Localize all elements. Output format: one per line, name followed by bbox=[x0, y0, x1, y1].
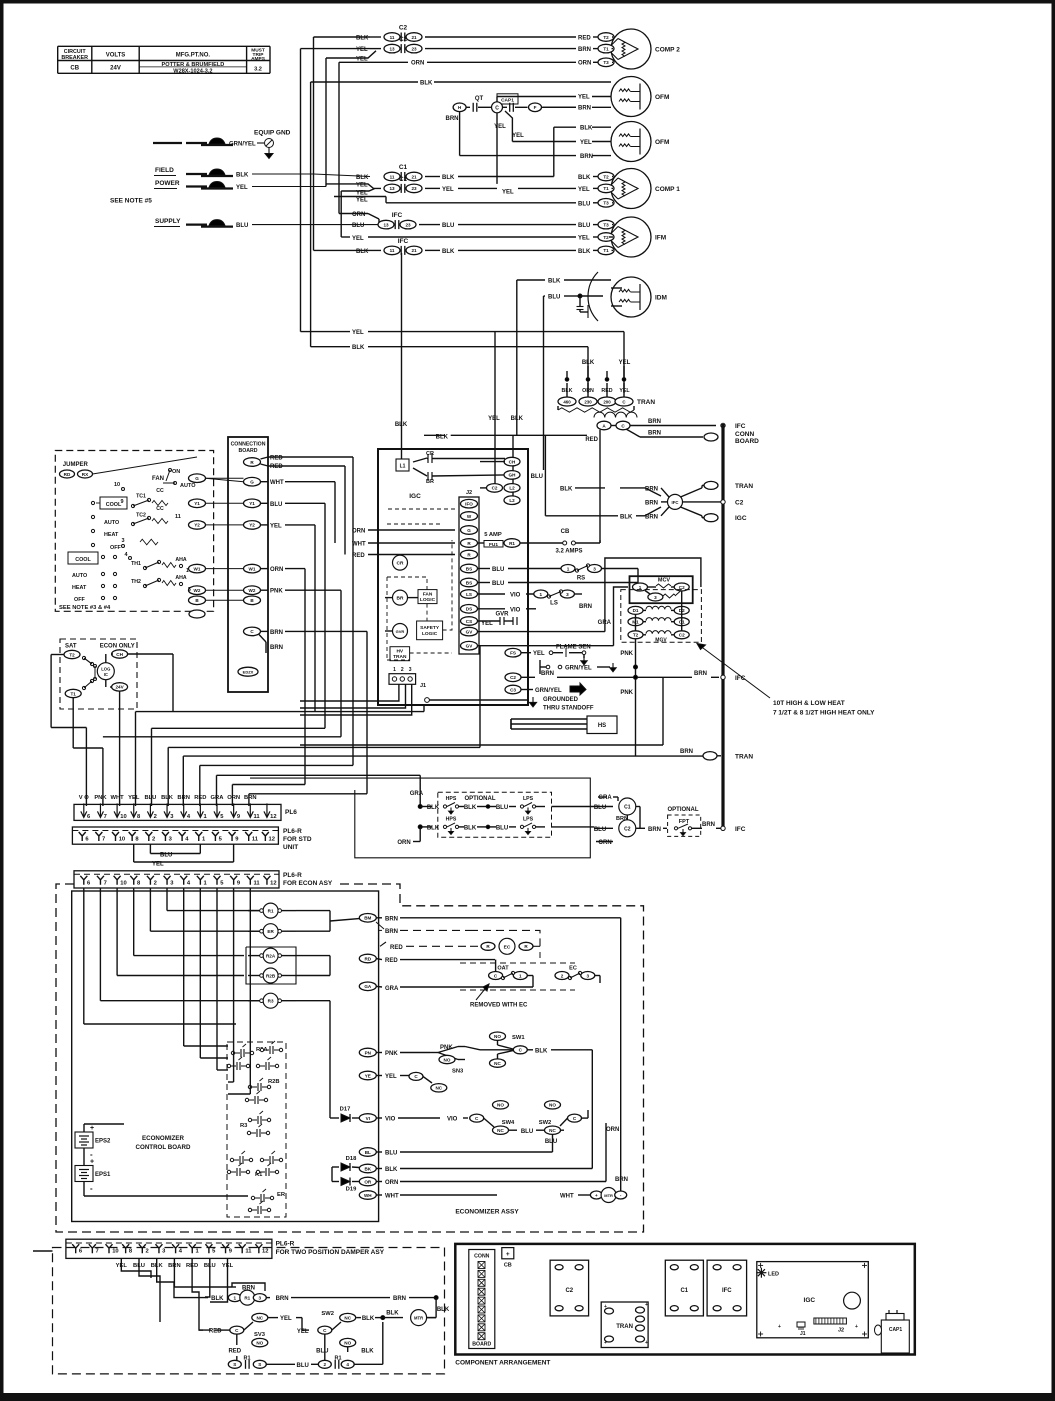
svg-text:2: 2 bbox=[324, 1362, 327, 1367]
svg-text:L1: L1 bbox=[400, 464, 406, 470]
svg-text:BR: BR bbox=[426, 479, 434, 485]
svg-text:CH: CH bbox=[509, 459, 516, 464]
svg-text:FIELD: FIELD bbox=[155, 167, 174, 174]
svg-text:BLK: BLK bbox=[236, 173, 249, 179]
svg-text:IFC: IFC bbox=[735, 826, 746, 833]
svg-text:RED: RED bbox=[578, 36, 591, 42]
svg-text:BRN: BRN bbox=[578, 47, 591, 53]
svg-text:BLK: BLK bbox=[437, 1307, 450, 1313]
svg-text:W1: W1 bbox=[249, 566, 256, 571]
svg-text:BLU: BLU bbox=[578, 201, 590, 207]
svg-text:LED: LED bbox=[768, 1272, 779, 1278]
svg-text:YEL: YEL bbox=[580, 140, 592, 146]
svg-text:J2: J2 bbox=[466, 490, 472, 496]
svg-text:BRN: BRN bbox=[244, 795, 257, 801]
svg-text:BLU: BLU bbox=[521, 1129, 533, 1135]
svg-text:T3: T3 bbox=[603, 201, 609, 206]
svg-text:RD: RD bbox=[364, 956, 371, 961]
svg-text:24V: 24V bbox=[110, 66, 121, 72]
svg-text:PNK: PNK bbox=[94, 795, 107, 801]
svg-text:BRN: BRN bbox=[276, 1296, 289, 1302]
svg-text:12: 12 bbox=[270, 814, 276, 820]
svg-text:COOL: COOL bbox=[106, 502, 122, 508]
svg-text:FPT: FPT bbox=[679, 819, 690, 825]
svg-text:HPS: HPS bbox=[446, 816, 457, 822]
svg-text:3: 3 bbox=[587, 973, 590, 978]
svg-text:IFC: IFC bbox=[735, 423, 746, 430]
svg-text:OPTIONAL: OPTIONAL bbox=[668, 807, 699, 813]
svg-text:HS: HS bbox=[598, 723, 606, 729]
svg-text:BR: BR bbox=[397, 596, 404, 602]
svg-text:GRA: GRA bbox=[598, 620, 612, 626]
svg-text:NC: NC bbox=[344, 1315, 351, 1320]
svg-text:ORN: ORN bbox=[270, 567, 283, 573]
svg-text:PL6-R: PL6-R bbox=[276, 1241, 295, 1248]
svg-text:W28X-1024-3.2: W28X-1024-3.2 bbox=[173, 68, 212, 74]
svg-text:GVR: GVR bbox=[396, 629, 405, 634]
svg-text:IGC: IGC bbox=[409, 493, 421, 500]
svg-text:EPS1: EPS1 bbox=[95, 1172, 111, 1178]
svg-text:GA: GA bbox=[364, 984, 372, 989]
svg-text:CB: CB bbox=[504, 1262, 512, 1268]
svg-text:VIO: VIO bbox=[510, 607, 521, 613]
svg-text:10: 10 bbox=[114, 482, 120, 488]
svg-text:COMPONENT ARRANGEMENT: COMPONENT ARRANGEMENT bbox=[455, 1360, 550, 1367]
svg-text:23: 23 bbox=[411, 46, 417, 51]
svg-text:BLU: BLU bbox=[352, 223, 364, 229]
svg-text:GRA: GRA bbox=[598, 795, 612, 801]
svg-text:ER: ER bbox=[267, 929, 274, 934]
svg-text:CB: CB bbox=[561, 529, 570, 535]
svg-text:CR: CR bbox=[426, 451, 434, 457]
svg-text:R2B: R2B bbox=[266, 974, 276, 979]
svg-text:1: 1 bbox=[186, 568, 189, 574]
svg-text:EC: EC bbox=[504, 944, 511, 950]
svg-text:IFC: IFC bbox=[672, 500, 679, 505]
svg-text:ORN: ORN bbox=[411, 61, 424, 67]
svg-text:CC: CC bbox=[156, 506, 164, 512]
svg-text:CAP1: CAP1 bbox=[501, 98, 514, 104]
svg-text:D19: D19 bbox=[346, 1187, 357, 1193]
svg-text:Y2: Y2 bbox=[249, 523, 255, 528]
svg-text:SW2: SW2 bbox=[539, 1120, 552, 1126]
svg-text:FAN: FAN bbox=[423, 592, 433, 598]
svg-text:JUMPER: JUMPER bbox=[63, 462, 89, 468]
svg-text:2: 2 bbox=[154, 880, 157, 886]
svg-text:S: S bbox=[258, 1362, 261, 1367]
svg-text:DS: DS bbox=[466, 607, 472, 612]
svg-text:1: 1 bbox=[519, 973, 522, 978]
svg-text:GRN/YEL: GRN/YEL bbox=[565, 666, 592, 672]
svg-text:IDM: IDM bbox=[655, 295, 667, 302]
svg-text:BLU: BLU bbox=[385, 1151, 397, 1157]
svg-text:FAN: FAN bbox=[152, 476, 164, 482]
svg-text:MGV: MGV bbox=[655, 638, 667, 644]
svg-text:BRN: BRN bbox=[541, 671, 554, 677]
svg-text:ON: ON bbox=[172, 469, 180, 475]
svg-text:BOARD: BOARD bbox=[472, 1342, 491, 1348]
svg-text:YEL: YEL bbox=[494, 124, 506, 130]
svg-text:11: 11 bbox=[245, 1249, 252, 1255]
svg-text:COMP 1: COMP 1 bbox=[655, 186, 680, 193]
svg-text:+: + bbox=[778, 1324, 781, 1330]
svg-text:C2: C2 bbox=[399, 25, 408, 32]
svg-text:TRAN: TRAN bbox=[616, 1324, 633, 1330]
svg-text:+: + bbox=[506, 1251, 510, 1258]
svg-text:YEL: YEL bbox=[236, 185, 248, 191]
svg-text:YEL: YEL bbox=[152, 862, 164, 868]
svg-text:L2: L2 bbox=[509, 498, 515, 503]
svg-text:BRN: BRN bbox=[648, 431, 661, 437]
svg-text:ORN: ORN bbox=[352, 528, 365, 534]
svg-text:AUTO: AUTO bbox=[180, 483, 196, 489]
svg-text:SAFETY: SAFETY bbox=[420, 625, 440, 631]
svg-text:EC: EC bbox=[569, 966, 577, 972]
svg-text:BRN: BRN bbox=[616, 816, 628, 822]
svg-text:BRN: BRN bbox=[578, 106, 591, 112]
svg-text:OR: OR bbox=[364, 1179, 372, 1184]
svg-text:J2: J2 bbox=[838, 1328, 844, 1334]
svg-text:11: 11 bbox=[252, 837, 259, 843]
svg-text:BM: BM bbox=[364, 916, 371, 921]
svg-text:7: 7 bbox=[102, 837, 105, 843]
svg-text:FU1: FU1 bbox=[489, 542, 498, 548]
svg-text:L2: L2 bbox=[509, 486, 515, 491]
svg-text:PNK: PNK bbox=[385, 1051, 398, 1057]
svg-text:GRA: GRA bbox=[410, 791, 424, 797]
svg-text:12: 12 bbox=[269, 837, 275, 843]
svg-text:BLU: BLU bbox=[545, 1139, 557, 1145]
svg-text:VI: VI bbox=[366, 1116, 370, 1121]
svg-text:MCV: MCV bbox=[658, 578, 671, 584]
svg-text:21: 21 bbox=[411, 174, 417, 179]
svg-text:WHT: WHT bbox=[385, 1194, 399, 1200]
svg-text:MTR: MTR bbox=[414, 1316, 423, 1321]
svg-text:3: 3 bbox=[654, 595, 657, 600]
svg-text:T3: T3 bbox=[603, 60, 609, 65]
svg-text:SUPPLY: SUPPLY bbox=[155, 218, 181, 225]
svg-text:460: 460 bbox=[563, 399, 571, 404]
svg-text:OFF: OFF bbox=[74, 597, 85, 603]
svg-text:VIO: VIO bbox=[510, 593, 521, 599]
svg-text:4: 4 bbox=[346, 1362, 349, 1367]
svg-text:T1: T1 bbox=[603, 46, 609, 51]
svg-text:21: 21 bbox=[411, 35, 417, 40]
svg-text:GROUNDED: GROUNDED bbox=[543, 697, 579, 703]
svg-text:ORN: ORN bbox=[606, 1127, 619, 1133]
svg-text:YEL: YEL bbox=[270, 523, 282, 529]
svg-text:D18: D18 bbox=[346, 1156, 357, 1162]
svg-text:T3: T3 bbox=[603, 222, 609, 227]
svg-text:BLK: BLK bbox=[385, 1167, 398, 1173]
svg-text:BLU: BLU bbox=[496, 825, 508, 831]
svg-text:RED: RED bbox=[270, 464, 283, 470]
svg-text:R1: R1 bbox=[334, 1356, 341, 1362]
svg-text:GV: GV bbox=[466, 644, 474, 649]
svg-text:BRN: BRN bbox=[446, 116, 459, 122]
svg-text:VIO: VIO bbox=[447, 1117, 458, 1123]
svg-text:BRN: BRN bbox=[580, 154, 593, 160]
svg-text:CS: CS bbox=[466, 619, 472, 624]
svg-text:IFC: IFC bbox=[398, 238, 409, 245]
svg-text:D17: D17 bbox=[340, 1107, 351, 1113]
svg-text:R1: R1 bbox=[244, 1296, 250, 1301]
svg-text:BLK: BLK bbox=[362, 1316, 375, 1322]
svg-text:OAT: OAT bbox=[497, 966, 509, 972]
svg-text:YEL: YEL bbox=[619, 388, 630, 394]
svg-text:RED: RED bbox=[352, 553, 365, 559]
svg-text:3: 3 bbox=[409, 667, 412, 673]
svg-text:NO: NO bbox=[494, 1034, 501, 1039]
svg-text:YEL: YEL bbox=[502, 190, 514, 196]
svg-text:BRN: BRN bbox=[270, 630, 283, 636]
svg-text:BLK: BLK bbox=[578, 249, 591, 255]
svg-text:3: 3 bbox=[566, 592, 569, 597]
svg-text:R3: R3 bbox=[240, 1123, 248, 1129]
svg-text:BLK: BLK bbox=[420, 80, 433, 86]
svg-text:WHT: WHT bbox=[352, 541, 366, 547]
svg-text:R1: R1 bbox=[268, 909, 274, 914]
svg-text:C1: C1 bbox=[624, 805, 631, 811]
svg-text:NC: NC bbox=[256, 1315, 263, 1320]
svg-text:AHA: AHA bbox=[175, 557, 186, 563]
svg-text:C1: C1 bbox=[399, 176, 408, 183]
svg-text:SW4: SW4 bbox=[502, 1120, 515, 1126]
svg-text:YEL: YEL bbox=[352, 236, 364, 242]
svg-text:12: 12 bbox=[270, 880, 276, 886]
svg-text:GRN/YEL: GRN/YEL bbox=[535, 688, 562, 694]
svg-text:YEL: YEL bbox=[533, 651, 545, 657]
svg-text:10: 10 bbox=[119, 837, 125, 843]
svg-text:+: + bbox=[90, 1125, 94, 1132]
svg-text:BLK: BLK bbox=[464, 805, 477, 811]
svg-text:NC: NC bbox=[497, 1128, 504, 1133]
svg-text:ORN: ORN bbox=[227, 795, 240, 801]
svg-text:YEL: YEL bbox=[578, 95, 590, 101]
svg-text:BRN: BRN bbox=[385, 916, 398, 922]
svg-text:BLK: BLK bbox=[580, 125, 593, 131]
svg-text:BLU: BLU bbox=[316, 1349, 328, 1355]
svg-text:HEAT: HEAT bbox=[104, 532, 119, 538]
svg-text:BLU: BLU bbox=[492, 567, 504, 573]
svg-text:YEL: YEL bbox=[280, 1316, 292, 1322]
svg-text:23: 23 bbox=[411, 186, 417, 191]
svg-text:C2: C2 bbox=[565, 1288, 573, 1294]
svg-text:LS: LS bbox=[550, 601, 558, 607]
svg-text:13: 13 bbox=[389, 46, 395, 51]
svg-text:SW2: SW2 bbox=[321, 1311, 334, 1317]
svg-text:BLU: BLU bbox=[548, 295, 560, 301]
svg-text:OFF: OFF bbox=[110, 545, 121, 551]
svg-text:+: + bbox=[595, 1193, 598, 1198]
svg-text:YEL: YEL bbox=[385, 1074, 397, 1080]
svg-text:12: 12 bbox=[262, 1249, 268, 1255]
svg-text:J1: J1 bbox=[420, 683, 426, 689]
svg-text:2: 2 bbox=[401, 667, 404, 673]
svg-text:1: 1 bbox=[540, 592, 543, 597]
svg-text:R2A: R2A bbox=[266, 954, 276, 959]
svg-text:NC: NC bbox=[549, 1128, 556, 1133]
svg-text:230: 230 bbox=[584, 399, 592, 404]
svg-text:10T HIGH & LOW HEAT: 10T HIGH & LOW HEAT bbox=[773, 700, 845, 707]
svg-text:RED: RED bbox=[385, 958, 398, 964]
svg-text:YE: YE bbox=[365, 1073, 371, 1078]
svg-text:BLK: BLK bbox=[578, 175, 591, 181]
svg-text:Y2: Y2 bbox=[194, 523, 200, 528]
svg-text:LOGIC: LOGIC bbox=[420, 597, 436, 603]
svg-text:3.2: 3.2 bbox=[254, 67, 262, 73]
svg-text:7: 7 bbox=[104, 880, 107, 886]
svg-text:BRN: BRN bbox=[270, 645, 283, 651]
svg-text:W2: W2 bbox=[249, 588, 256, 593]
svg-text:3.2 AMPS: 3.2 AMPS bbox=[555, 549, 582, 555]
svg-text:AHA: AHA bbox=[175, 575, 186, 581]
svg-text:SEE NOTE #3 & #4: SEE NOTE #3 & #4 bbox=[59, 605, 111, 611]
svg-text:OFM: OFM bbox=[655, 139, 669, 146]
svg-text:ECON ONLY: ECON ONLY bbox=[100, 644, 135, 650]
svg-text:HEAT: HEAT bbox=[72, 585, 87, 591]
svg-text:BRN: BRN bbox=[385, 929, 398, 935]
svg-text:NO: NO bbox=[256, 1340, 263, 1345]
svg-text:GH: GH bbox=[509, 473, 517, 478]
svg-text:Y1: Y1 bbox=[194, 501, 200, 506]
svg-text:GRN/YEL: GRN/YEL bbox=[229, 142, 256, 148]
svg-text:YEL: YEL bbox=[128, 795, 140, 801]
svg-text:RX: RX bbox=[82, 472, 89, 477]
svg-text:T1: T1 bbox=[603, 248, 609, 253]
svg-text:SAT: SAT bbox=[65, 644, 77, 650]
svg-text:NO: NO bbox=[497, 1103, 504, 1108]
svg-text:NC: NC bbox=[435, 1086, 442, 1091]
svg-text:TC1: TC1 bbox=[136, 494, 146, 500]
svg-text:LPS: LPS bbox=[523, 816, 534, 822]
svg-text:FS: FS bbox=[510, 651, 516, 656]
svg-text:2: 2 bbox=[152, 837, 155, 843]
svg-text:HV: HV bbox=[396, 649, 403, 655]
svg-text:YEL: YEL bbox=[578, 187, 590, 193]
svg-text:QT: QT bbox=[475, 96, 484, 102]
svg-text:ORN: ORN bbox=[598, 840, 611, 846]
svg-text:RED: RED bbox=[194, 795, 206, 801]
svg-text:YEL: YEL bbox=[352, 330, 364, 336]
svg-text:BLK: BLK bbox=[535, 1048, 548, 1054]
svg-text:NC: NC bbox=[494, 1061, 501, 1066]
svg-text:10: 10 bbox=[112, 1249, 118, 1255]
svg-text:G: G bbox=[195, 476, 199, 481]
svg-text:OFM: OFM bbox=[655, 94, 669, 101]
svg-text:SN3: SN3 bbox=[452, 1069, 464, 1075]
svg-text:BLK: BLK bbox=[352, 345, 365, 351]
svg-text:TRAN: TRAN bbox=[637, 399, 655, 406]
svg-text:R2B: R2B bbox=[268, 1079, 280, 1085]
svg-text:BLK: BLK bbox=[620, 514, 633, 520]
svg-text:BLK: BLK bbox=[511, 416, 524, 422]
svg-text:HPS: HPS bbox=[446, 796, 457, 802]
svg-text:BLK: BLK bbox=[548, 279, 561, 285]
svg-text:SV3: SV3 bbox=[254, 1332, 266, 1338]
svg-text:ORN: ORN bbox=[385, 1180, 398, 1186]
svg-text:T2: T2 bbox=[603, 35, 609, 40]
svg-text:TRAN: TRAN bbox=[735, 483, 753, 490]
svg-text:C2: C2 bbox=[510, 675, 516, 680]
svg-text:13: 13 bbox=[389, 186, 395, 191]
svg-text:R1: R1 bbox=[509, 541, 515, 546]
svg-text:1: 1 bbox=[639, 585, 642, 590]
svg-text:IFO: IFO bbox=[465, 502, 473, 507]
svg-text:ECONOMIZER: ECONOMIZER bbox=[142, 1135, 184, 1142]
svg-text:3: 3 bbox=[593, 566, 596, 571]
svg-text:C2: C2 bbox=[735, 499, 744, 506]
svg-text:RED: RED bbox=[209, 1329, 222, 1335]
svg-text:C2: C2 bbox=[492, 486, 498, 491]
svg-text:BLU: BLU bbox=[492, 581, 504, 587]
svg-text:+: + bbox=[90, 1159, 94, 1166]
svg-text:3: 3 bbox=[259, 1295, 262, 1300]
svg-text:T2: T2 bbox=[633, 633, 639, 638]
svg-text:FLAME SEN: FLAME SEN bbox=[556, 645, 591, 651]
svg-text:MFG.PT.NO.: MFG.PT.NO. bbox=[176, 53, 211, 59]
svg-text:11: 11 bbox=[254, 814, 261, 820]
svg-text:BK: BK bbox=[364, 1166, 371, 1171]
svg-text:LOG: LOG bbox=[101, 666, 110, 671]
svg-text:ORN: ORN bbox=[578, 61, 591, 67]
svg-text:C2: C2 bbox=[624, 826, 631, 832]
svg-text:WHT: WHT bbox=[110, 795, 124, 801]
svg-text:REMOVED WITH EC: REMOVED WITH EC bbox=[470, 1003, 528, 1009]
svg-text:PNK: PNK bbox=[270, 589, 283, 595]
svg-text:POTTER & BRUMFIELD: POTTER & BRUMFIELD bbox=[162, 62, 225, 68]
svg-text:YEL: YEL bbox=[488, 416, 500, 422]
svg-text:LOGIC: LOGIC bbox=[422, 631, 438, 637]
svg-text:BLU: BLU bbox=[270, 502, 282, 508]
svg-text:FOR TWO POSITION DAMPER ASY: FOR TWO POSITION DAMPER ASY bbox=[276, 1249, 385, 1256]
svg-text:ER: ER bbox=[277, 1192, 286, 1198]
svg-text:ECONOMIZER ASSY: ECONOMIZER ASSY bbox=[455, 1209, 519, 1216]
svg-text:YEL: YEL bbox=[619, 360, 631, 366]
svg-text:CH: CH bbox=[116, 652, 123, 657]
svg-text:TC2: TC2 bbox=[136, 513, 146, 519]
svg-text:BRN: BRN bbox=[694, 671, 707, 677]
svg-text:YEL: YEL bbox=[512, 133, 524, 139]
svg-text:BOARD: BOARD bbox=[238, 448, 257, 454]
svg-text:5: 5 bbox=[188, 587, 191, 593]
svg-text:AUTO: AUTO bbox=[104, 520, 119, 526]
svg-text:RED: RED bbox=[390, 945, 403, 951]
svg-text:T1: T1 bbox=[71, 691, 77, 696]
svg-text:V O: V O bbox=[79, 795, 89, 801]
svg-text:YEL: YEL bbox=[356, 198, 368, 204]
svg-text:YEL: YEL bbox=[442, 187, 454, 193]
svg-text:ORN: ORN bbox=[397, 840, 410, 846]
svg-text:C2: C2 bbox=[679, 633, 685, 638]
svg-text:CC: CC bbox=[156, 488, 164, 494]
svg-text:PL6-R: PL6-R bbox=[283, 872, 302, 879]
svg-text:7: 7 bbox=[104, 814, 107, 820]
svg-text:RED: RED bbox=[585, 437, 598, 443]
svg-text:IFC: IFC bbox=[392, 212, 403, 219]
svg-text:EDZX: EDZX bbox=[243, 670, 254, 675]
svg-text:BLU: BLU bbox=[236, 223, 248, 229]
svg-text:FOR ECON ASY: FOR ECON ASY bbox=[283, 880, 333, 887]
svg-text:COMP 2: COMP 2 bbox=[655, 47, 680, 54]
svg-text:BL: BL bbox=[365, 1150, 371, 1155]
svg-text:VOLTS: VOLTS bbox=[106, 53, 126, 59]
svg-text:BRN: BRN bbox=[648, 419, 661, 425]
svg-text:1: 1 bbox=[393, 667, 396, 673]
svg-text:FOR STD: FOR STD bbox=[283, 836, 312, 843]
svg-text:23: 23 bbox=[405, 222, 411, 227]
svg-text:POWER: POWER bbox=[155, 180, 180, 187]
